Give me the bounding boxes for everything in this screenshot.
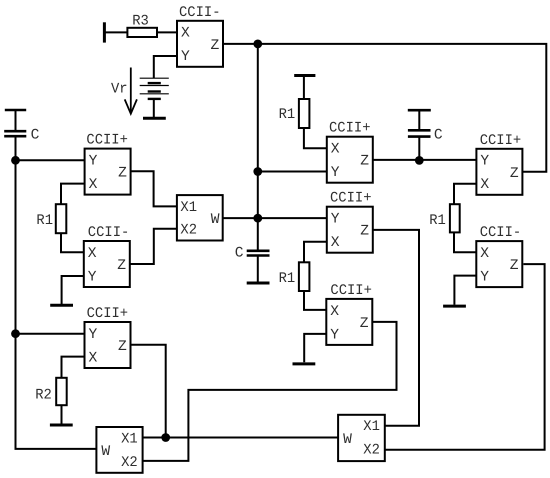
svg-text:X1: X1 (121, 431, 138, 447)
svg-text:W: W (101, 444, 110, 460)
svg-text:C: C (235, 246, 244, 262)
svg-text:CCII-: CCII- (480, 225, 522, 241)
svg-text:Z: Z (510, 166, 519, 182)
svg-text:Y: Y (330, 327, 339, 343)
svg-text:CCII+: CCII+ (329, 121, 371, 137)
svg-text:Y: Y (88, 269, 97, 285)
svg-text:Z: Z (211, 38, 220, 54)
svg-text:X: X (330, 304, 339, 320)
svg-text:C: C (31, 128, 40, 144)
svg-text:X: X (181, 26, 190, 42)
svg-text:Y: Y (480, 270, 489, 286)
svg-text:R1: R1 (429, 213, 446, 229)
svg-text:X2: X2 (363, 443, 380, 459)
svg-text:X: X (480, 177, 489, 193)
svg-text:R1: R1 (36, 213, 53, 229)
svg-text:X1: X1 (180, 200, 197, 216)
svg-text:X2: X2 (121, 455, 138, 471)
svg-text:CCII+: CCII+ (330, 191, 372, 207)
svg-text:X: X (89, 350, 98, 366)
svg-text:X: X (331, 142, 340, 158)
svg-text:Y: Y (181, 49, 190, 65)
svg-text:Z: Z (360, 154, 369, 170)
svg-text:R1: R1 (279, 107, 296, 123)
svg-text:Y: Y (331, 165, 340, 181)
svg-text:Z: Z (360, 316, 369, 332)
svg-text:CCII-: CCII- (88, 225, 130, 241)
svg-text:Y: Y (89, 327, 98, 343)
svg-text:X: X (331, 235, 340, 251)
svg-text:W: W (343, 432, 352, 448)
svg-text:X2: X2 (180, 223, 197, 239)
svg-text:Y: Y (480, 154, 489, 170)
svg-text:CCII+: CCII+ (480, 133, 522, 149)
svg-text:Z: Z (118, 166, 127, 182)
svg-text:Y: Y (331, 212, 340, 228)
svg-text:CCII-: CCII- (179, 5, 221, 21)
svg-text:Z: Z (360, 224, 369, 240)
svg-text:R1: R1 (279, 271, 296, 287)
svg-text:Y: Y (89, 154, 98, 170)
svg-text:X1: X1 (363, 419, 380, 435)
svg-text:R2: R2 (35, 388, 52, 404)
svg-text:CCII+: CCII+ (330, 283, 372, 299)
svg-text:C: C (434, 127, 443, 143)
svg-text:X: X (89, 177, 98, 193)
svg-text:X: X (88, 246, 97, 262)
svg-text:Vr: Vr (111, 82, 128, 98)
svg-text:W: W (211, 212, 220, 228)
svg-text:R3: R3 (132, 14, 149, 30)
svg-text:X: X (480, 246, 489, 262)
svg-text:CCII+: CCII+ (86, 133, 128, 149)
svg-text:CCII+: CCII+ (87, 306, 129, 322)
svg-text:Z: Z (118, 339, 127, 355)
svg-text:Z: Z (117, 258, 126, 274)
svg-text:Z: Z (510, 258, 519, 274)
